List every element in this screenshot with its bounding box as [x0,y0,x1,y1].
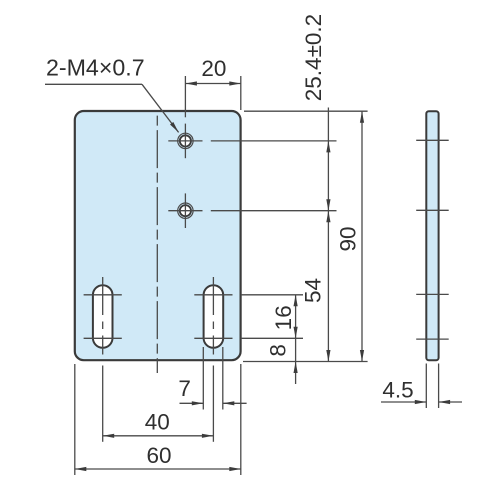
dimension 25.4 arrow up [326,141,330,153]
side view tick slot top [416,293,449,295]
dimension 60 line [75,468,241,470]
dimension 4.5 arrow left-pointing [439,400,451,404]
slot right crosshair top arc center [194,294,232,296]
extension line plate right edge below [240,364,242,475]
dimension 4.5 left tail [381,401,426,403]
svg-text:90: 90 [336,226,361,251]
side view tick slot bottom [416,338,449,340]
slot right vertical centerline [212,277,214,355]
slot right crosshair bottom arc center [194,337,232,339]
dimension 4.5 extension line left [425,364,427,409]
slot left obround [93,285,113,348]
dimension 20 extension line right (plate edge up) [240,76,242,110]
dimension 20 extension line left (from hole center) [184,76,186,117]
dimension 60 arrow right [229,467,241,471]
slot left vertical centerline [102,277,104,355]
dimension 4.5 right tail [439,401,462,403]
plate front view outline [75,111,241,360]
extension line plate left edge below [74,364,76,475]
hole M4 lower inner circle [180,205,191,216]
svg-text:60: 60 [146,443,171,468]
dimension 90 arrow down [360,350,364,362]
dimension 16 arrow down [294,327,298,339]
dimension 7 extension line left (slot left edge) [202,347,204,410]
hole M4 upper crosshair vertical [184,124,186,159]
leader arrowhead [170,122,179,132]
dimension 20 arrow left [185,81,197,85]
slot left crosshair top arc center [84,294,122,296]
side view tick upper hole [416,139,449,141]
dimension 20 arrow right [229,81,241,85]
dimension 40 arrow right [202,434,214,438]
hole M4 lower crosshair vertical [184,193,186,228]
hole M4 upper inner circle [180,135,191,146]
vertical center line of plate [156,116,158,373]
dimension 7 right tail [223,402,247,404]
dimension 7 left tail [180,402,204,404]
dimension 60 arrow left [75,467,87,471]
extension line left slot center below plate [102,366,104,442]
svg-text:54: 54 [301,278,326,303]
hole M4 upper outer thread circle [178,133,193,148]
dimension 54 arrow down [326,350,330,362]
dimension 90 arrow up [360,111,364,123]
dimension 25.4 / 54 line [327,108,329,362]
dimension 7 extension line right (slot right edge) [222,347,224,410]
hole M4 lower outer thread circle [178,203,193,218]
svg-text:20: 20 [201,56,226,81]
hole M4 upper crosshair horizontal [168,140,202,142]
side view plate bar [426,111,438,360]
extension line plate bottom to right [243,361,368,363]
dimension 7 arrow left-pointing [223,401,235,405]
dimension 8 arrow up (outside) [294,362,298,374]
dimension 90 line [361,111,363,361]
svg-text:40: 40 [145,410,170,435]
svg-text:16: 16 [271,305,296,330]
dimension 20 line [185,83,240,85]
slot right obround [204,285,224,348]
extension line right slot center below plate [212,366,214,442]
dimension 7 arrow right-pointing [192,401,204,405]
svg-text:4.5: 4.5 [382,378,413,403]
svg-text:25.4±0.2: 25.4±0.2 [301,14,326,101]
dimension 16 / 8 line [295,295,297,384]
svg-text:7: 7 [178,376,191,401]
leader diagonal line to upper hole [142,84,179,132]
dimension 4.5 extension line right [438,364,440,409]
extension line lower hole to right [211,210,337,212]
svg-text:8: 8 [266,344,291,357]
slot left crosshair bottom arc center [84,337,122,339]
svg-text:2-M4×0.7: 2-M4×0.7 [46,55,145,81]
extension line upper hole to right [211,140,337,142]
extension line slot bottom arc center to right [241,337,303,339]
extension line plate top to right [244,110,368,112]
dimension 16 arrow up [294,295,298,307]
hole M4 lower crosshair horizontal [168,210,202,212]
extension line slot top arc center to right [241,294,303,296]
leader underline [45,83,142,85]
dimension 25.4 arrow down [326,199,330,211]
dimension 54 arrow up [326,211,330,223]
dimension 4.5 arrow right-pointing [415,400,427,404]
side view tick lower hole [416,209,449,211]
dimension 40 line [103,435,214,437]
dimension 40 arrow left [103,434,115,438]
